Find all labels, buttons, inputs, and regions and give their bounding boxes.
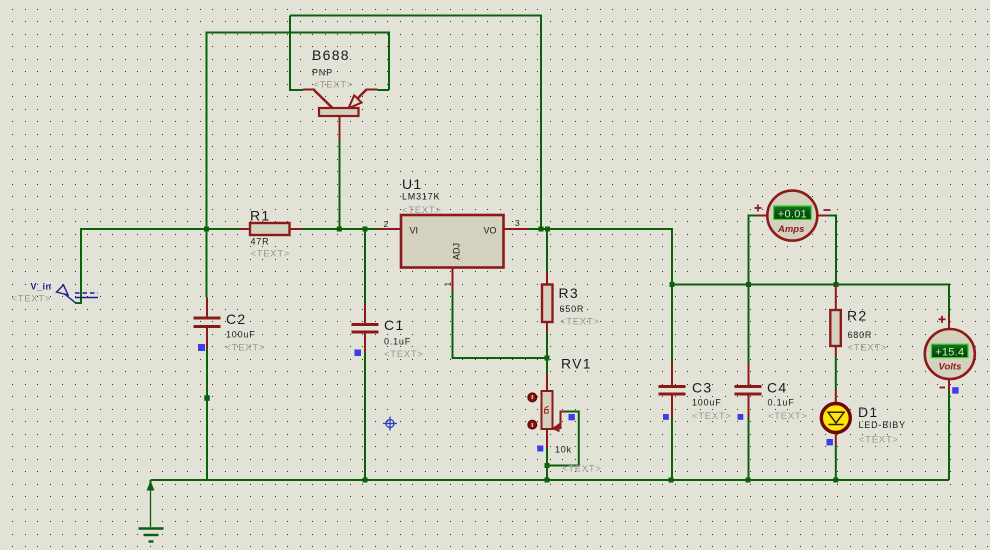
svg-text:0.1uF: 0.1uF: [768, 398, 795, 408]
svg-text:2: 2: [384, 219, 389, 229]
svg-text:<TEXT>: <TEXT>: [251, 249, 291, 260]
svg-text:100uF: 100uF: [692, 398, 722, 408]
svg-text:Amps: Amps: [777, 224, 804, 235]
svg-text:<TEXT>: <TEXT>: [12, 294, 52, 305]
svg-text:VO: VO: [484, 226, 497, 236]
svg-text:<TEXT>: <TEXT>: [848, 343, 888, 354]
svg-text:LM317K: LM317K: [402, 192, 440, 202]
svg-text:LED-BIBY: LED-BIBY: [859, 420, 906, 430]
svg-text:B688: B688: [312, 47, 350, 63]
svg-text:V_in: V_in: [31, 282, 52, 292]
svg-text:100uF: 100uF: [226, 330, 256, 340]
svg-text:<TEXT>: <TEXT>: [402, 205, 442, 216]
svg-text:<TEXT>: <TEXT>: [562, 464, 602, 475]
svg-text:0.1uF: 0.1uF: [384, 337, 411, 347]
svg-text:R2: R2: [847, 308, 868, 324]
svg-text:<TEXT>: <TEXT>: [384, 349, 424, 360]
svg-text:<TEXT>: <TEXT>: [768, 411, 808, 422]
svg-text:R1: R1: [250, 208, 271, 224]
svg-text:650R: 650R: [560, 304, 585, 314]
svg-text:<TEXT>: <TEXT>: [692, 411, 732, 422]
svg-text:10k: 10k: [555, 445, 572, 455]
svg-text:<TEXT>: <TEXT>: [314, 80, 354, 91]
svg-text:<TEXT>: <TEXT>: [859, 435, 899, 446]
svg-text:<TEXT>: <TEXT>: [226, 343, 266, 354]
svg-text:C4: C4: [767, 380, 788, 396]
svg-text:1: 1: [443, 282, 453, 287]
svg-text:D1: D1: [858, 404, 879, 420]
svg-text:47R: 47R: [251, 237, 270, 247]
svg-text:RV1: RV1: [561, 356, 592, 372]
svg-text:C1: C1: [384, 317, 405, 333]
svg-text:C2: C2: [226, 311, 247, 327]
svg-text:<TEXT>: <TEXT>: [560, 317, 600, 328]
svg-text:680R: 680R: [848, 330, 873, 340]
svg-text:R3: R3: [559, 285, 580, 301]
svg-text:U1: U1: [402, 176, 423, 192]
svg-text:ADJ: ADJ: [452, 243, 462, 260]
svg-text:Volts: Volts: [939, 362, 962, 373]
svg-text:C3: C3: [692, 380, 713, 396]
svg-text:VI: VI: [410, 226, 419, 236]
svg-text:+15.4: +15.4: [935, 347, 964, 359]
svg-text:+0.01: +0.01: [778, 208, 807, 220]
svg-text:3: 3: [515, 218, 520, 228]
svg-text:PNP: PNP: [312, 68, 333, 78]
